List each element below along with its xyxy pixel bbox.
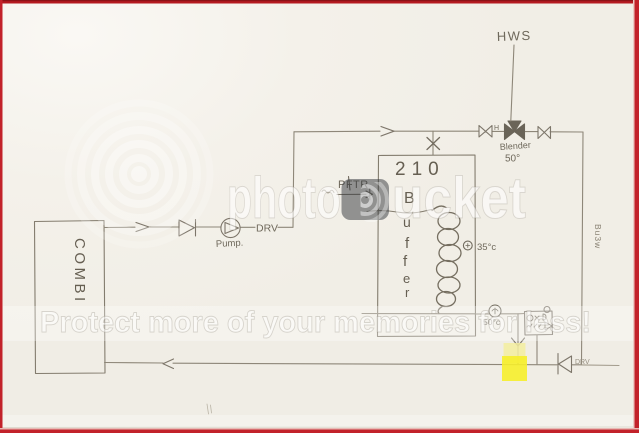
svg-text:DRV: DRV bbox=[575, 359, 590, 366]
faint scan mark bbox=[207, 404, 212, 414]
isolating valve V1 bbox=[479, 126, 492, 138]
blender mixing valve bbox=[505, 124, 515, 140]
PHTR arrow bbox=[337, 189, 373, 201]
red frame border bbox=[0, 0, 639, 4]
svg-text:50°: 50° bbox=[505, 154, 520, 165]
svg-text:HWS: HWS bbox=[497, 28, 532, 44]
watermark circle logo bbox=[68, 103, 210, 245]
buffer tank box bbox=[378, 155, 476, 337]
tank mid line bbox=[367, 210, 432, 213]
handwritten labels bbox=[71, 28, 603, 366]
pump P1 bbox=[221, 218, 240, 237]
stat 50 bbox=[489, 305, 501, 317]
svg-text:r: r bbox=[405, 285, 410, 300]
coil heat exchanger bbox=[432, 206, 461, 313]
con squiggle bbox=[322, 190, 334, 193]
svg-text:COMBI: COMBI bbox=[71, 238, 88, 305]
top flow pipe bbox=[294, 130, 380, 133]
elements box scribbles bbox=[527, 314, 552, 330]
svg-text:ucket: ucket bbox=[392, 166, 526, 231]
down arrow bbox=[512, 338, 525, 346]
svg-text:35°c: 35°c bbox=[477, 242, 496, 253]
svg-text:e: e bbox=[403, 271, 410, 286]
gate valve on buffer stub bbox=[432, 131, 434, 155]
watermark photobucket text bbox=[227, 166, 526, 231]
return check valve DRV2 bbox=[558, 354, 572, 375]
svg-text:H: H bbox=[494, 125, 499, 132]
svg-text:photo: photo bbox=[227, 166, 341, 231]
combi boiler box bbox=[35, 221, 106, 374]
yellow highlighter mark bbox=[502, 343, 527, 381]
return pipe bbox=[105, 362, 164, 365]
isolating valve V2 bbox=[538, 127, 551, 139]
drop wire to return bbox=[517, 314, 519, 364]
watermark logo square bbox=[342, 179, 390, 220]
svg-text:Protect more of your memories: Protect more of your memories for less! bbox=[40, 306, 591, 339]
elements drop wire bbox=[536, 335, 538, 364]
svg-text:Bu3w: Bu3w bbox=[593, 224, 603, 249]
check valve NRV bbox=[179, 220, 196, 237]
stat 35 bbox=[463, 241, 472, 250]
watermark banner bbox=[3, 306, 635, 341]
immersion elements box bbox=[525, 311, 553, 335]
HWS wire bbox=[511, 45, 514, 121]
flow arrow top bbox=[381, 127, 394, 137]
tank bottom connection line bbox=[362, 313, 475, 315]
return arrow bbox=[163, 359, 174, 369]
riser wire bbox=[293, 132, 294, 228]
flow pipe combi to riser bbox=[104, 226, 135, 228]
flow arrow bbox=[136, 223, 149, 232]
svg-text:Pump.: Pump. bbox=[216, 238, 244, 250]
right drop wire bbox=[582, 132, 584, 365]
